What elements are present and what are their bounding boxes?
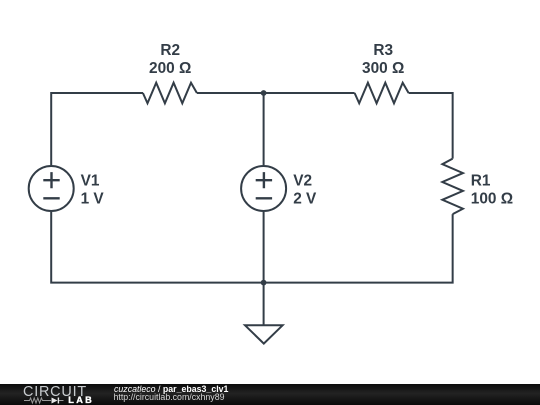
resistor R2 xyxy=(143,83,197,104)
wire: node N2 to ground xyxy=(263,283,265,325)
voltage source V1 xyxy=(29,166,74,211)
footer url text xyxy=(114,392,225,402)
wire: R1 to node N2 (right rail bottom + bottom-right segment) xyxy=(264,214,453,283)
node N1 (junction dot) xyxy=(261,90,267,96)
footer bar xyxy=(0,384,540,405)
svg-text:300 Ω: 300 Ω xyxy=(362,60,404,77)
wire: R2 to node N1 xyxy=(197,92,264,94)
CircuitLab logo schematic line (resistor + diode) xyxy=(23,396,67,405)
svg-text:V1: V1 xyxy=(81,172,100,189)
resistor R3 xyxy=(355,83,409,104)
svg-text:1 V: 1 V xyxy=(81,190,105,207)
svg-text:R2: R2 xyxy=(160,42,180,59)
footer title text xyxy=(114,384,228,394)
svg-text:V2: V2 xyxy=(293,172,312,189)
wire: V2 bottom to node N2 xyxy=(263,212,265,283)
wire: V1 top to R2 (left rail top + top-left segment) xyxy=(51,93,143,165)
svg-text:100 Ω: 100 Ω xyxy=(471,190,513,207)
wire: node N2 to V1 bottom (bottom-left segment + left rail bottom) xyxy=(51,212,263,283)
ground xyxy=(245,325,283,343)
CircuitLab logo wordmark LAB xyxy=(68,395,94,405)
svg-text:R1: R1 xyxy=(471,172,491,189)
svg-text:R3: R3 xyxy=(373,42,393,59)
voltage source V2 xyxy=(241,166,286,211)
CircuitLab logo wordmark CIRCUIT xyxy=(23,384,87,400)
svg-text:200 Ω: 200 Ω xyxy=(149,60,191,77)
wire: node N1 to V2 top xyxy=(263,93,265,165)
wire: R3 to R1 (top-right corner + right rail top) xyxy=(409,93,453,159)
svg-text:2 V: 2 V xyxy=(293,190,317,207)
resistor R1 xyxy=(442,159,463,215)
wire: node N1 to R3 xyxy=(264,92,355,94)
node N2 (junction dot) xyxy=(261,280,267,286)
